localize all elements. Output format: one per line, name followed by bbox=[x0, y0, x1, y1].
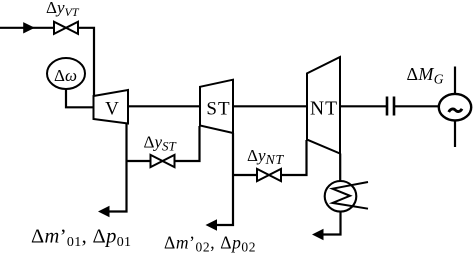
svg-text:NT: NT bbox=[310, 99, 338, 120]
svg-text:V: V bbox=[105, 99, 119, 120]
svg-text:ΔyNT: ΔyNT bbox=[247, 146, 284, 168]
svg-text:ΔyST: ΔyST bbox=[144, 133, 177, 154]
svg-text:Δm’02, Δp02: Δm’02, Δp02 bbox=[164, 233, 256, 255]
svg-text:Δm’01, Δp01: Δm’01, Δp01 bbox=[31, 226, 131, 251]
svg-text:ΔMG: ΔMG bbox=[407, 64, 444, 87]
svg-text:ST: ST bbox=[206, 99, 230, 120]
svg-text:Δω: Δω bbox=[54, 66, 77, 85]
svg-text:ΔyVT: ΔyVT bbox=[46, 0, 80, 19]
